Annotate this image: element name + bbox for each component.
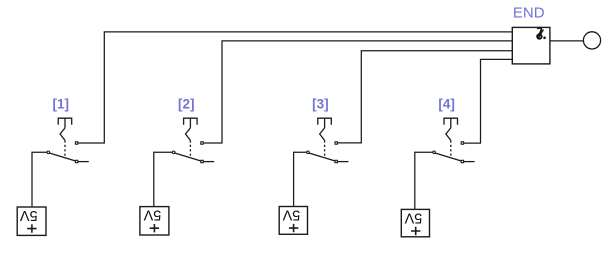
svg-text:[3]: [3] — [312, 96, 329, 111]
svg-text:5V: 5V — [282, 207, 300, 223]
svg-text:[1]: [1] — [53, 96, 70, 111]
svg-text:5V: 5V — [143, 207, 161, 223]
svg-text:5V: 5V — [404, 210, 422, 226]
svg-text:5V: 5V — [20, 207, 38, 223]
svg-text:[2]: [2] — [178, 96, 195, 111]
svg-text:[4]: [4] — [438, 96, 455, 111]
svg-text:END: END — [513, 5, 545, 22]
